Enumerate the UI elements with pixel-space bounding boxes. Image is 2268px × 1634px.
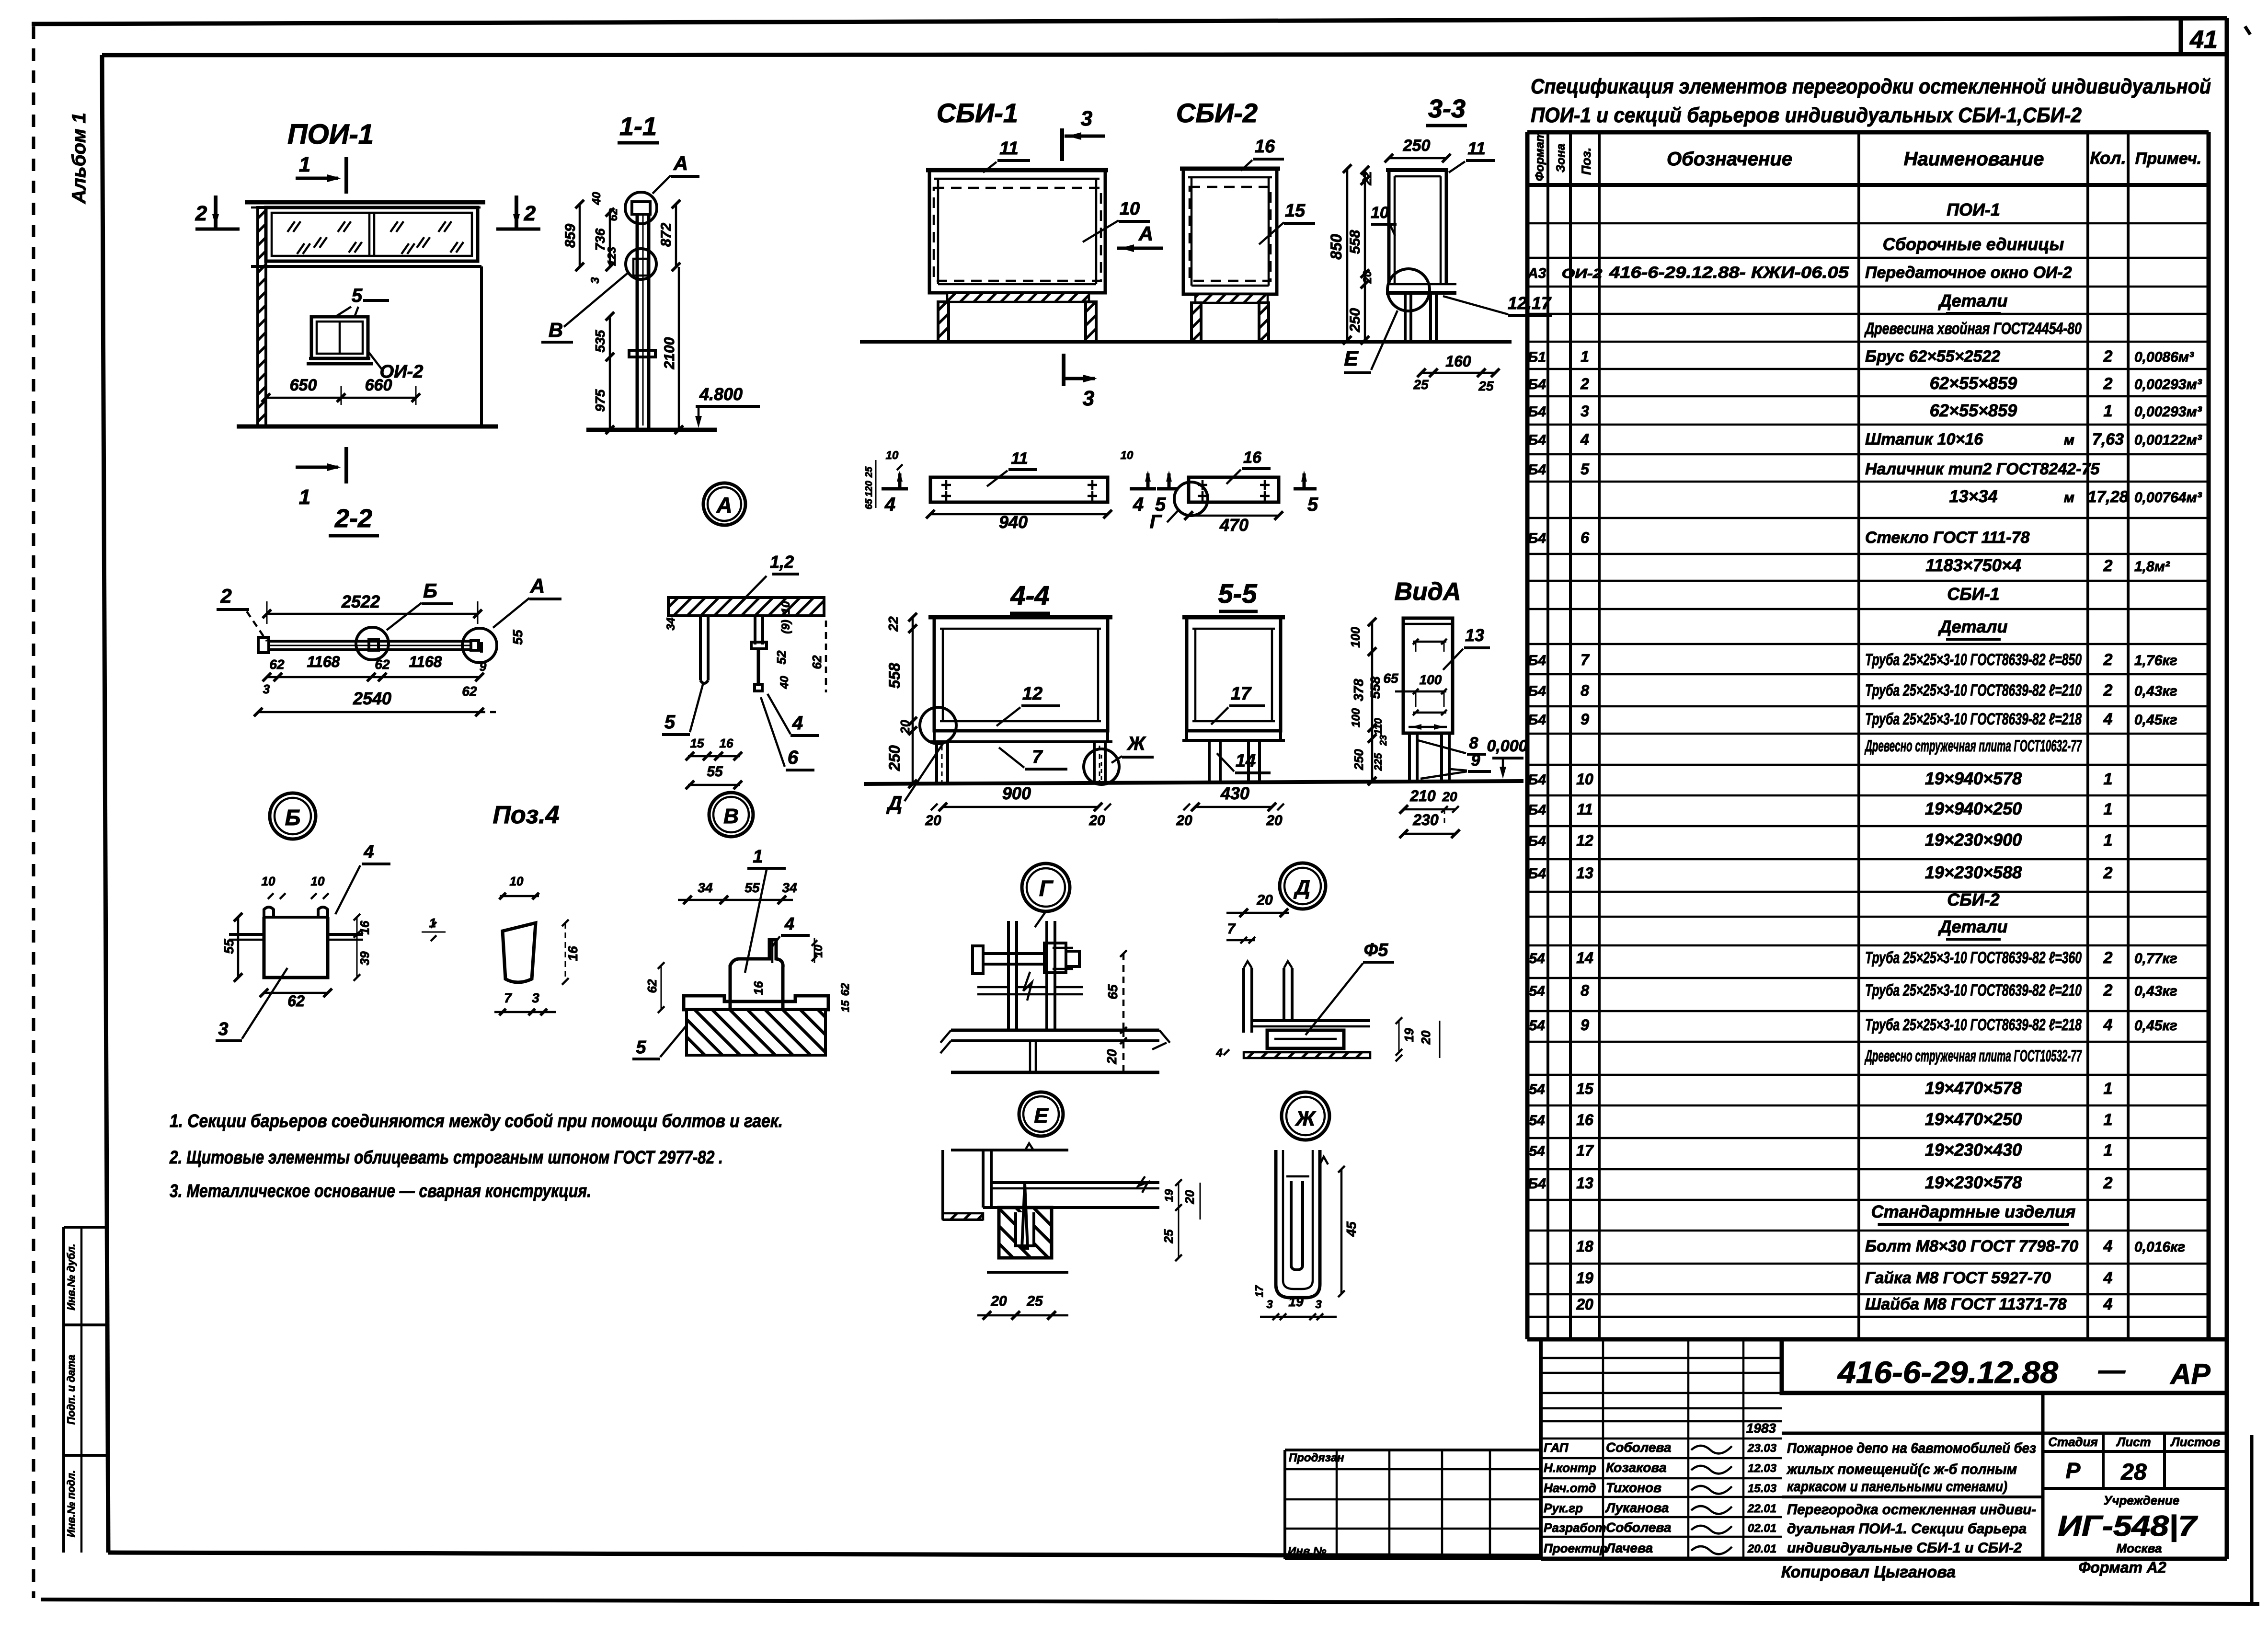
svg-text:19: 19 <box>1576 1269 1593 1287</box>
VidA dim stack left <box>1371 622 1374 781</box>
svg-text:22: 22 <box>1360 171 1374 185</box>
svg-text:120: 120 <box>864 481 874 496</box>
4-4 detail circle Zh marker <box>1084 749 1119 784</box>
svg-text:м: м <box>2064 432 2074 448</box>
svg-text:Б4: Б4 <box>1528 377 1546 392</box>
svg-text:17,28: 17,28 <box>2087 488 2128 506</box>
svg-text:1,2: 1,2 <box>770 552 794 572</box>
1-1 dims left <box>579 204 581 267</box>
section mark 1 top <box>344 157 348 194</box>
svg-text:9: 9 <box>1471 751 1480 770</box>
svg-text:Б4: Б4 <box>1528 833 1546 849</box>
svg-text:4: 4 <box>363 842 374 862</box>
detail circle E <box>1019 1092 1063 1136</box>
detail E drawing <box>951 1149 1068 1151</box>
svg-text:17: 17 <box>1576 1142 1594 1159</box>
section mark 1 bottom <box>344 447 348 483</box>
svg-text:Р: Р <box>2066 1458 2081 1483</box>
svg-text:2. Щитовые элементы облицев: 2. Щитовые элементы облицевать строганым… <box>169 1148 723 1168</box>
table header row <box>1527 183 2209 187</box>
svg-text:Б4: Б4 <box>1528 530 1546 546</box>
svg-text:7: 7 <box>1227 921 1236 937</box>
svg-text:7: 7 <box>1032 747 1043 767</box>
dim 650 660 <box>266 397 416 399</box>
svg-text:2-2: 2-2 <box>334 504 372 533</box>
svg-text:25: 25 <box>1161 1229 1176 1243</box>
svg-text:20: 20 <box>990 1293 1007 1309</box>
svg-text:110: 110 <box>1372 718 1384 735</box>
svg-text:2: 2 <box>2103 557 2113 575</box>
svg-text:9: 9 <box>1581 711 1589 728</box>
svg-text:20: 20 <box>1419 1030 1433 1045</box>
svg-text:54: 54 <box>1529 951 1545 967</box>
svg-text:10: 10 <box>1120 199 1140 219</box>
svg-text:Г: Г <box>1039 876 1054 901</box>
section mark 4 right <box>1130 487 1156 491</box>
svg-text:11: 11 <box>1467 138 1485 158</box>
3-3 legs <box>1404 293 1407 340</box>
svg-text:Поз.4: Поз.4 <box>493 801 559 829</box>
1-1 detail circle top A <box>625 192 657 224</box>
svg-text:62: 62 <box>810 655 824 669</box>
svg-text:0,00122м³: 0,00122м³ <box>2134 432 2202 448</box>
svg-text:15: 15 <box>690 736 704 750</box>
svg-text:2: 2 <box>2103 375 2113 393</box>
svg-text:859: 859 <box>562 224 578 248</box>
svg-text:25: 25 <box>1413 377 1429 392</box>
table outer border <box>1527 130 2209 135</box>
svg-text:20: 20 <box>1266 813 1283 829</box>
svg-text:Передаточное окно ОИ-2: Передаточное окно ОИ-2 <box>1865 264 2072 282</box>
section mark 5 left <box>1157 487 1179 491</box>
svg-text:15: 15 <box>1576 1080 1594 1097</box>
svg-text:Наличник тип2 ГОСТ8242-75: Наличник тип2 ГОСТ8242-75 <box>1865 460 2100 478</box>
svg-text:4: 4 <box>784 914 794 933</box>
svg-text:Б4: Б4 <box>1528 432 1546 448</box>
svg-text:Инв.№ подл.: Инв.№ подл. <box>65 1470 77 1537</box>
svg-text:Листов: Листов <box>2170 1435 2221 1449</box>
svg-text:Д: Д <box>1293 876 1310 899</box>
svg-text:2: 2 <box>2103 681 2113 700</box>
svg-text:Формат: Формат <box>1533 131 1546 181</box>
svg-text:ПОИ-1: ПОИ-1 <box>287 119 374 150</box>
detail V block on sill <box>730 940 783 1010</box>
svg-text:62: 62 <box>269 657 285 672</box>
detail G dims <box>1123 954 1125 1030</box>
1-1 post <box>636 208 639 430</box>
svg-text:1: 1 <box>2104 800 2113 818</box>
detail V glass hatched base <box>687 1010 825 1055</box>
svg-text:2: 2 <box>2103 347 2113 366</box>
svg-text:Труба 25×25×3-10 ГОСТ8639-82 ℓ: Труба 25×25×3-10 ГОСТ8639-82 ℓ=850 <box>1865 651 2082 669</box>
svg-text:4: 4 <box>2103 1295 2113 1313</box>
svg-text:1,76кг: 1,76кг <box>2134 653 2177 668</box>
svg-text:19×230×430: 19×230×430 <box>1925 1140 2022 1160</box>
SBI-1 dashed chipboard outline <box>934 188 1101 281</box>
svg-text:23.03: 23.03 <box>1747 1442 1777 1455</box>
svg-text:62: 62 <box>607 208 620 221</box>
svg-text:индивидуальные СБИ-1 и СБИ-2: индивидуальные СБИ-1 и СБИ-2 <box>1787 1540 2022 1556</box>
svg-text:—: — <box>2098 1355 2126 1385</box>
svg-text:Ж: Ж <box>1126 733 1146 754</box>
detail A dims <box>825 621 827 692</box>
svg-text:2: 2 <box>2103 1174 2113 1192</box>
2-2 panel plan bar <box>269 640 470 643</box>
svg-text:100: 100 <box>1420 672 1442 687</box>
svg-text:Разработ: Разработ <box>1544 1520 1606 1535</box>
svg-text:2: 2 <box>195 202 207 225</box>
svg-text:5: 5 <box>664 712 676 733</box>
svg-text:0,00293м³: 0,00293м³ <box>2134 404 2202 420</box>
svg-text:3: 3 <box>589 277 602 284</box>
svg-text:1: 1 <box>2104 831 2113 850</box>
svg-text:19: 19 <box>1288 1294 1304 1309</box>
detail E dims <box>1178 1183 1180 1208</box>
svg-text:558: 558 <box>886 663 903 689</box>
svg-text:10: 10 <box>779 601 792 614</box>
svg-text:13: 13 <box>1576 864 1593 882</box>
svg-text:55: 55 <box>745 880 760 895</box>
POI-1 panel right edge <box>480 266 483 426</box>
svg-text:Труба 25×25×3-10 ГОСТ8639-82 ℓ: Труба 25×25×3-10 ГОСТ8639-82 ℓ=210 <box>1865 681 2082 700</box>
svg-text:А: А <box>530 575 545 597</box>
3-3 bottom dims 25 160 25 <box>1421 372 1495 374</box>
svg-text:А: А <box>1138 222 1153 245</box>
svg-text:жилых помещений(с ж-б полным: жилых помещений(с ж-б полным <box>1786 1461 2017 1477</box>
svg-text:8: 8 <box>1469 734 1478 752</box>
svg-text:4: 4 <box>2103 710 2113 728</box>
POI-1 glass band inner frame <box>272 213 472 256</box>
svg-text:62: 62 <box>839 983 852 996</box>
svg-text:25: 25 <box>1026 1293 1043 1309</box>
signature rows <box>1541 1457 1782 1460</box>
svg-text:28: 28 <box>2120 1460 2147 1485</box>
VidA inner tie dims <box>1413 641 1446 643</box>
svg-text:Б1: Б1 <box>1528 349 1546 365</box>
SBI-2 hatched sill band <box>1195 294 1268 303</box>
svg-text:416-6-29.12.88: 416-6-29.12.88 <box>1837 1355 2059 1390</box>
SBI-1 view arrow A <box>1117 247 1163 250</box>
svg-text:1: 1 <box>1581 348 1589 365</box>
detail A drawing hatched band <box>668 598 824 616</box>
plate 19x470x578 plan <box>1189 477 1279 502</box>
main frame right <box>2225 18 2229 1559</box>
main frame top <box>102 54 2227 55</box>
svg-text:940: 940 <box>999 512 1028 532</box>
svg-text:20: 20 <box>1256 892 1273 908</box>
4-4 bottom dims 900 <box>943 806 1098 808</box>
svg-text:0,43кг: 0,43кг <box>2134 983 2177 999</box>
1-1 dims mid <box>609 316 611 430</box>
detail circle G on plate2 <box>1174 482 1208 516</box>
svg-text:225: 225 <box>1372 753 1384 771</box>
svg-text:0,45кг: 0,45кг <box>2134 1018 2177 1034</box>
svg-text:55: 55 <box>510 630 525 645</box>
svg-text:16: 16 <box>1255 137 1275 157</box>
svg-text:2522: 2522 <box>341 592 380 611</box>
svg-text:Б: Б <box>423 579 437 602</box>
svg-text:Древесно стружечная плита ГОСТ: Древесно стружечная плита ГОСТ10532-77 <box>1864 1047 2082 1065</box>
svg-text:55: 55 <box>221 939 236 954</box>
svg-text:Труба 25×25×3-10 ГОСТ8639-82 ℓ: Труба 25×25×3-10 ГОСТ8639-82 ℓ=210 <box>1865 981 2082 1000</box>
4-4 left dims <box>912 617 914 784</box>
svg-text:Ж: Ж <box>1295 1107 1317 1130</box>
svg-text:2: 2 <box>220 585 231 607</box>
paper edge dashed left line <box>32 26 35 1598</box>
svg-text:0,45кг: 0,45кг <box>2134 712 2177 728</box>
svg-text:4: 4 <box>2103 1016 2113 1034</box>
svg-text:12: 12 <box>1576 832 1593 849</box>
1-1 ground line <box>586 428 717 432</box>
svg-text:Копировал Цыганова: Копировал Цыганова <box>1781 1563 1956 1581</box>
3-3 detail circle E <box>1387 269 1430 311</box>
svg-text:15.03: 15.03 <box>1748 1482 1777 1495</box>
svg-text:0,00764м³: 0,00764м³ <box>2134 490 2202 506</box>
svg-text:4: 4 <box>884 494 895 515</box>
svg-text:каркасом и панельными стенами: каркасом и панельными стенами) <box>1787 1479 2007 1495</box>
svg-text:Козакова: Козакова <box>1606 1460 1667 1475</box>
POI-1 left wall hatched <box>258 207 266 426</box>
VidA panel <box>1403 618 1453 733</box>
svg-text:10: 10 <box>262 874 275 888</box>
svg-text:19×230×588: 19×230×588 <box>1925 863 2022 882</box>
svg-text:872: 872 <box>658 223 674 247</box>
3-3 left dims <box>1346 169 1349 340</box>
svg-text:5-5: 5-5 <box>1218 578 1258 609</box>
detail D dims <box>1226 912 1289 914</box>
svg-text:14: 14 <box>1576 949 1593 967</box>
svg-text:2540: 2540 <box>353 689 391 708</box>
svg-text:Штапик 10×16: Штапик 10×16 <box>1865 430 1983 449</box>
svg-text:Б4: Б4 <box>1528 1176 1546 1192</box>
svg-text:0,77кг: 0,77кг <box>2134 951 2177 967</box>
svg-text:0,000: 0,000 <box>1487 737 1527 755</box>
svg-text:Брус 62×55×2522: Брус 62×55×2522 <box>1865 347 2000 366</box>
svg-text:250: 250 <box>1403 137 1431 155</box>
svg-text:62: 62 <box>462 684 477 699</box>
svg-text:0,0086м³: 0,0086м³ <box>2134 349 2194 365</box>
svg-text:2: 2 <box>1580 375 1589 392</box>
svg-text:Б4: Б4 <box>1528 683 1546 699</box>
svg-text:В: В <box>549 319 563 341</box>
svg-text:20: 20 <box>1104 1049 1119 1065</box>
svg-text:54: 54 <box>1529 1018 1545 1034</box>
svg-text:11: 11 <box>1577 801 1592 818</box>
svg-text:4: 4 <box>1580 431 1589 448</box>
svg-text:Гайка М8 ГОСТ 5927-70: Гайка М8 ГОСТ 5927-70 <box>1865 1269 2051 1287</box>
dim 940 <box>930 513 1108 516</box>
svg-text:20: 20 <box>1176 813 1192 829</box>
5-5 bottom dims 430 <box>1195 806 1272 808</box>
svg-text:Древесно стружечная плита ГОСТ: Древесно стружечная плита ГОСТ10632-77 <box>1864 737 2082 755</box>
POI-1 band under glass <box>251 265 481 268</box>
svg-text:Детали: Детали <box>1938 617 2008 636</box>
4-4 legs <box>935 742 938 784</box>
svg-text:Продязан: Продязан <box>1289 1451 1344 1464</box>
plate 19x940x578 plan <box>930 477 1108 502</box>
svg-text:3: 3 <box>1315 1298 1322 1311</box>
svg-text:10: 10 <box>886 449 899 462</box>
svg-text:Лачева: Лачева <box>1605 1541 1653 1555</box>
title block <box>1539 1339 1543 1559</box>
svg-text:3: 3 <box>1266 1298 1273 1311</box>
svg-text:10: 10 <box>510 874 524 888</box>
SBI-2 panel <box>1180 167 1280 171</box>
svg-text:Поз.: Поз. <box>1579 148 1593 175</box>
svg-text:АР: АР <box>2169 1358 2211 1390</box>
svg-text:160: 160 <box>1445 353 1471 370</box>
svg-text:Тихонов: Тихонов <box>1606 1480 1661 1495</box>
outer right border segment <box>2250 1435 2254 1604</box>
svg-text:3: 3 <box>1581 403 1589 420</box>
svg-text:34: 34 <box>698 880 713 895</box>
detail circle D <box>1280 863 1326 909</box>
svg-text:20: 20 <box>925 813 941 829</box>
svg-text:13×34: 13×34 <box>1949 486 1997 506</box>
svg-text:Инв.№ дубл.: Инв.№ дубл. <box>65 1243 77 1310</box>
svg-text:Детали: Детали <box>1938 291 2008 311</box>
svg-text:430: 430 <box>1220 783 1249 803</box>
svg-text:1: 1 <box>753 847 763 867</box>
svg-text:250: 250 <box>1352 749 1366 771</box>
2-2 dim 2540 <box>258 711 480 713</box>
svg-text:9: 9 <box>1581 1016 1589 1034</box>
svg-text:9: 9 <box>480 659 487 674</box>
1-1 dims right <box>675 204 677 267</box>
svg-text:660: 660 <box>365 376 392 394</box>
svg-text:Перегородка остекленная индиви: Перегородка остекленная индиви- <box>1787 1502 2036 1518</box>
svg-text:4: 4 <box>2103 1269 2113 1287</box>
section marks 2 left right <box>214 196 218 229</box>
svg-text:54: 54 <box>1529 1082 1545 1097</box>
svg-text:54: 54 <box>1529 1143 1545 1159</box>
svg-text:100: 100 <box>1350 708 1363 727</box>
stamp mini grid <box>1541 1357 1782 1359</box>
svg-text:1: 1 <box>2104 770 2113 788</box>
svg-text:20: 20 <box>1182 1190 1197 1204</box>
stage sheet cells <box>2043 1450 2227 1453</box>
table row lines <box>1527 222 2209 225</box>
svg-text:23: 23 <box>1378 735 1389 746</box>
svg-text:Соболева: Соболева <box>1606 1440 1672 1455</box>
svg-text:2: 2 <box>2103 949 2113 967</box>
svg-text:3: 3 <box>263 682 270 696</box>
svg-text:16: 16 <box>751 981 766 995</box>
2-2 dim row 62 1168 <box>267 676 480 679</box>
SBI-1 hatched sill band <box>947 293 1089 302</box>
svg-text:Москва: Москва <box>2117 1541 2162 1555</box>
detail G drawing <box>1035 911 1046 927</box>
svg-text:62: 62 <box>287 992 305 1010</box>
svg-text:3: 3 <box>218 1019 228 1039</box>
svg-text:Детали: Детали <box>1938 917 2008 936</box>
svg-text:3: 3 <box>1083 387 1094 410</box>
svg-text:900: 900 <box>1002 783 1031 803</box>
svg-text:20: 20 <box>1576 1296 1593 1313</box>
left extension of title block <box>1285 1449 1541 1451</box>
svg-text:м: м <box>2064 490 2074 506</box>
detail circle B title <box>270 793 316 839</box>
svg-text:Е: Е <box>1344 347 1359 370</box>
4-4 detail circle D <box>920 707 956 744</box>
svg-text:Н.контр: Н.контр <box>1544 1461 1596 1475</box>
svg-text:Спецификация элементов перего: Спецификация элементов перегородки остек… <box>1531 75 2211 98</box>
svg-text:Б4: Б4 <box>1528 866 1546 882</box>
svg-text:Ф5: Ф5 <box>1364 940 1389 960</box>
svg-text:19×940×250: 19×940×250 <box>1925 799 2022 818</box>
svg-text:А: А <box>673 152 688 174</box>
svg-text:5: 5 <box>1581 460 1590 478</box>
detail A channel <box>699 616 702 680</box>
svg-text:ПОИ-1: ПОИ-1 <box>1947 200 2000 219</box>
svg-text:12.17: 12.17 <box>1508 293 1552 313</box>
svg-text:65: 65 <box>864 498 874 509</box>
svg-text:2: 2 <box>2103 651 2113 669</box>
svg-text:54: 54 <box>1529 1113 1545 1128</box>
svg-text:19×940×578: 19×940×578 <box>1925 769 2022 788</box>
svg-text:54: 54 <box>1529 983 1545 999</box>
svg-text:Б4: Б4 <box>1528 712 1546 728</box>
detail marker circle A big <box>703 483 745 525</box>
svg-text:1: 1 <box>2104 1080 2113 1098</box>
svg-text:8: 8 <box>1581 982 1589 999</box>
svg-text:62×55×859: 62×55×859 <box>1930 401 2017 420</box>
svg-text:4: 4 <box>792 713 803 734</box>
Poz.4 trapezoid <box>503 923 536 982</box>
svg-text:416-6-29.12.88- КЖИ-06.05: 416-6-29.12.88- КЖИ-06.05 <box>1609 264 1849 282</box>
svg-text:11: 11 <box>1011 449 1028 468</box>
svg-text:62: 62 <box>375 657 390 672</box>
svg-text:19: 19 <box>1402 1028 1416 1042</box>
svg-text:Е: Е <box>1034 1104 1049 1128</box>
svg-text:Б4: Б4 <box>1528 802 1546 818</box>
svg-text:1. Секции барьеров соединяют: 1. Секции барьеров соединяются между соб… <box>170 1111 783 1131</box>
svg-text:Болт М8×30 ГОСТ 7798-70: Болт М8×30 ГОСТ 7798-70 <box>1865 1237 2078 1255</box>
svg-text:Примеч.: Примеч. <box>2135 150 2201 168</box>
section mark 4 left <box>882 487 908 491</box>
main frame left <box>102 55 108 1553</box>
svg-text:СБИ-1: СБИ-1 <box>1947 584 1999 604</box>
svg-text:5: 5 <box>636 1037 646 1058</box>
svg-text:650: 650 <box>290 376 317 394</box>
svg-text:4-4: 4-4 <box>1010 580 1050 610</box>
svg-text:1183×750×4: 1183×750×4 <box>1925 555 2021 575</box>
VidA bottom arrows <box>1409 726 1447 728</box>
svg-text:22.01: 22.01 <box>1747 1502 1776 1515</box>
svg-text:ОИ-2: ОИ-2 <box>1562 266 1603 281</box>
svg-text:40: 40 <box>590 192 603 205</box>
window OI-2 <box>311 317 368 358</box>
svg-text:1,8м²: 1,8м² <box>2134 559 2170 575</box>
svg-text:45: 45 <box>1344 1221 1359 1237</box>
svg-text:Древесина хвойная ГОСТ24454-80: Древесина хвойная ГОСТ24454-80 <box>1864 320 2082 338</box>
svg-text:850: 850 <box>1328 234 1345 260</box>
svg-text:18: 18 <box>1576 1238 1593 1255</box>
svg-text:Шайба М8 ГОСТ 11371-78: Шайба М8 ГОСТ 11371-78 <box>1865 1295 2067 1313</box>
detail V sill bar <box>684 996 828 1010</box>
SBI-1 panel <box>926 168 1108 173</box>
svg-text:Труба 25×25×3-10 ГОСТ8639-82 ℓ: Труба 25×25×3-10 ГОСТ8639-82 ℓ=218 <box>1865 1016 2082 1034</box>
sheet number box 41 <box>2179 18 2183 55</box>
svg-text:6: 6 <box>1581 529 1589 546</box>
svg-text:Рук.гр: Рук.гр <box>1544 1501 1583 1515</box>
svg-text:Обозначение: Обозначение <box>1667 149 1792 170</box>
svg-text:65: 65 <box>1105 984 1120 1000</box>
detail circle G <box>1022 863 1070 911</box>
svg-text:(9): (9) <box>779 620 792 633</box>
svg-text:7,63: 7,63 <box>2092 430 2124 449</box>
detail circle V title <box>709 793 753 837</box>
